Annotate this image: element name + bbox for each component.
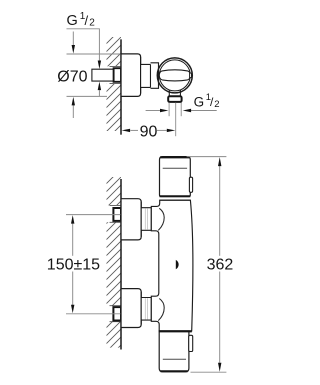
top handle side tab <box>189 177 192 192</box>
mixer body (front view) <box>151 200 193 331</box>
lower wall socket (front view) <box>113 307 121 320</box>
bottom handle inner line <box>163 358 186 360</box>
150 +/- 15 dimension <box>66 215 121 314</box>
top handle thick bottom edge <box>160 195 191 197</box>
wall face line (front view) <box>120 179 122 350</box>
G 1/2 leader (top) <box>67 29 100 97</box>
bottom handle thick bottom edge <box>161 370 188 372</box>
lower union flange (front view) <box>121 289 141 328</box>
svg-text:2: 2 <box>89 18 95 29</box>
handle grip lens (top view) <box>159 70 190 81</box>
union nut cylinder (top view) <box>141 64 151 87</box>
outlet neck (top view) <box>169 90 180 96</box>
wall hole edges (top view) <box>110 66 122 83</box>
bottom handle side tab <box>189 335 193 351</box>
upper wall hole edges <box>110 205 122 222</box>
top handle inner line <box>163 167 187 169</box>
upper nut shading <box>145 208 147 229</box>
svg-text:/: / <box>85 13 89 28</box>
wall face line repaint (front view) <box>120 179 122 350</box>
lower inlet intersection arc <box>158 299 164 321</box>
lower nut shading <box>145 298 147 319</box>
svg-text:Ø70: Ø70 <box>57 69 87 86</box>
handle knob outer circle (top view) <box>157 58 192 93</box>
upper flange right edge repaint (front view) <box>140 202 142 237</box>
top handle thick top edge <box>160 156 189 158</box>
escutcheon right edge repaint (top view) <box>140 57 142 94</box>
G 1/2 label (top-left) <box>67 11 96 29</box>
SafeStop button <box>176 260 179 269</box>
svg-text:G: G <box>67 13 78 29</box>
bottom handle (front view) <box>159 331 189 372</box>
svg-text:150±15: 150±15 <box>47 257 100 274</box>
escutcheon flange (top view) <box>121 54 141 97</box>
dia 70 dimension <box>67 32 122 119</box>
wall hatching (top view) <box>96 20 122 158</box>
wall socket fitting (top view) <box>114 68 121 82</box>
90 dimension <box>130 129 166 131</box>
handle knob inner circle (top view) <box>159 60 190 91</box>
upper inlet intersection arc <box>158 208 164 230</box>
outlet nut (top view) <box>168 96 181 102</box>
G 1/2 outlet label <box>194 92 220 110</box>
wall face line repaint (top view) <box>120 39 122 134</box>
top handle (front view) <box>160 157 191 197</box>
upper wall socket (front view) <box>113 208 121 221</box>
bottom handle thick top edge <box>159 330 192 332</box>
G 1/2 outlet dimension <box>146 110 217 112</box>
supply pipe behind wall (top view) <box>92 69 114 81</box>
G 1/2 leader arrowheads <box>98 61 101 70</box>
outlet centerline <box>175 103 177 137</box>
housing right edge repaint (top view) <box>158 63 160 89</box>
362 dimension <box>187 157 227 373</box>
lower flange right edge repaint (front view) <box>140 292 142 325</box>
upper union flange (front view) <box>121 199 141 240</box>
svg-text:G: G <box>194 94 205 109</box>
lower union nut (front view) <box>141 298 151 321</box>
outlet extension lines <box>169 103 181 117</box>
lower wall hole edges <box>110 306 122 322</box>
svg-text:362: 362 <box>207 257 234 274</box>
grip end tick (top view) <box>190 73 192 78</box>
collar line under top handle <box>160 199 191 201</box>
valve housing cylinder (top view) <box>151 63 159 89</box>
upper union nut (front view) <box>141 208 151 231</box>
svg-text:2: 2 <box>214 99 219 110</box>
svg-text:90: 90 <box>140 124 158 141</box>
wall hatching (front view) <box>96 160 122 370</box>
wall face line (top view) <box>120 39 122 134</box>
nut cylinder right edge repaint (top view) <box>150 64 152 87</box>
